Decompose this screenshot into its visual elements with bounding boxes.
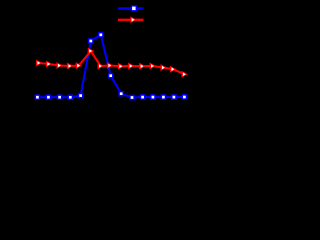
legend red entry line	[118, 19, 144, 21]
blue marker 14	[172, 95, 176, 99]
legend blue square marker	[131, 5, 137, 11]
legend red triangle marker	[130, 16, 137, 23]
blue marker 5	[79, 94, 83, 98]
red marker 4	[67, 63, 74, 70]
blue marker 13	[161, 95, 165, 99]
blue marker 7	[99, 33, 103, 37]
red marker 9	[118, 63, 125, 70]
red marker 5	[76, 62, 83, 69]
legend blue entry line	[118, 7, 144, 9]
blue marker 9	[119, 92, 123, 96]
red marker 11	[139, 63, 146, 70]
red marker 2	[46, 61, 53, 68]
blue marker 10	[130, 95, 134, 99]
blue marker 6	[89, 39, 93, 43]
blue marker 1	[35, 95, 39, 99]
blue marker 2	[46, 95, 50, 99]
red marker 6	[88, 48, 95, 55]
blue marker 15	[182, 95, 186, 99]
red series markers (right triangle, white core)	[36, 48, 188, 78]
red marker 14	[170, 66, 177, 73]
blue series line	[37, 35, 184, 98]
red series line	[39, 51, 185, 74]
red marker 7	[98, 63, 105, 70]
blue marker 4	[68, 95, 72, 99]
red marker 12	[150, 63, 157, 70]
blue series markers (square, white core)	[35, 33, 186, 100]
red marker 13	[160, 64, 167, 71]
red marker 3	[56, 62, 63, 69]
blue marker 11	[141, 95, 145, 99]
red marker 1	[36, 60, 43, 67]
blue marker 8	[109, 74, 113, 78]
red marker 10	[128, 63, 135, 70]
blue marker 3	[58, 95, 62, 99]
red marker 15	[181, 71, 188, 78]
blue marker 12	[151, 95, 155, 99]
red marker 8	[107, 62, 114, 69]
